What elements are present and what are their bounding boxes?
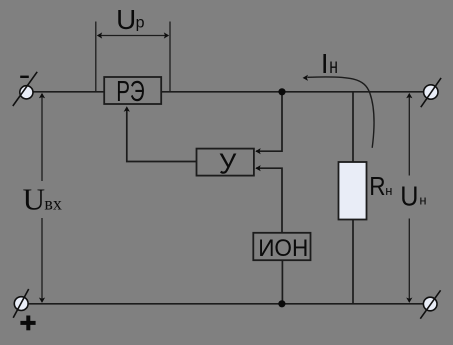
svg-text:вх: вх (44, 194, 62, 214)
svg-text:н: н (329, 55, 338, 78)
svg-text:ИОН: ИОН (258, 235, 308, 262)
svg-text:R: R (369, 171, 385, 201)
svg-text:р: р (136, 15, 145, 32)
svg-text:U: U (23, 181, 45, 216)
svg-text:У: У (219, 148, 237, 180)
svg-text:РЭ: РЭ (116, 76, 145, 108)
svg-text:I: I (321, 48, 329, 79)
svg-text:н: н (385, 183, 392, 198)
svg-text:U: U (116, 4, 136, 35)
svg-text:н: н (419, 193, 426, 208)
svg-text:U: U (400, 181, 418, 212)
